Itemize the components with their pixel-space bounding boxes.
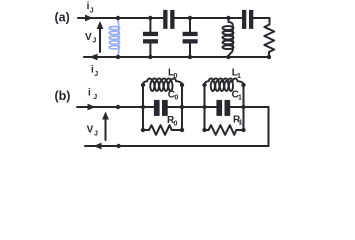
label i_J bottom (a) (91, 65, 98, 79)
svg-text:0: 0 (175, 95, 179, 102)
wire bottom return (b) (85, 145, 269, 147)
svg-text:J: J (94, 131, 98, 138)
capacitor C1 (205, 100, 244, 116)
arrowhead i_J (b) right (88, 104, 96, 111)
label R0 (167, 115, 178, 128)
node dots capacitor shunt 2 (188, 16, 192, 20)
node dots blue inductor (116, 16, 120, 20)
label C1 (232, 90, 242, 102)
resistor load (a) (264, 18, 274, 57)
block 1: right edge wire (243, 85, 245, 130)
wire bottom rail (a) (84, 56, 269, 58)
capacitor series 1 (a) (163, 10, 174, 29)
capacitor shunt 2 (a) (183, 18, 198, 57)
label V_J (b) (87, 125, 98, 138)
arrow V_J (a) up (97, 21, 104, 52)
wire right return (b) (268, 107, 270, 146)
label R1 (233, 115, 243, 127)
inductor L1 (205, 79, 244, 91)
block 0: right edge wire (181, 85, 183, 130)
svg-text:V: V (87, 125, 94, 136)
capacitor C0 (143, 100, 182, 116)
node dot input (b) (116, 105, 120, 109)
arrowhead i_J top (a) (85, 15, 93, 22)
capacitor series 2 (a) (242, 10, 253, 29)
svg-text:J: J (90, 8, 94, 15)
svg-text:J: J (92, 38, 96, 45)
label i_J (b) (88, 88, 97, 102)
node dots block 0 (141, 83, 184, 132)
node dots block 1 (202, 83, 245, 132)
node dot resistor bottom (267, 55, 271, 59)
inductor L0 (143, 79, 182, 91)
node dots capacitor shunt 1 (148, 16, 152, 20)
svg-text:i: i (88, 88, 91, 99)
svg-text:(b): (b) (55, 89, 71, 103)
wire middle rail (b) (77, 106, 269, 108)
node dot return (b) (116, 144, 120, 148)
svg-text:J: J (94, 71, 98, 78)
arrowhead return current (b) left (94, 143, 102, 150)
label i_J top (a) (87, 1, 94, 15)
node dots inductor shunt (a) (226, 16, 230, 20)
label L0 (168, 68, 178, 81)
svg-text:J: J (93, 94, 97, 101)
arrowhead i_J bottom (a) left (90, 54, 98, 61)
inductor shunt (a) black (223, 18, 234, 57)
wire top rail (a) with current arrow (78, 17, 270, 19)
svg-text:0: 0 (174, 73, 178, 80)
resistor R0 (143, 125, 182, 135)
svg-text:1: 1 (237, 73, 241, 80)
resistor R1 (205, 125, 244, 135)
svg-text:1: 1 (238, 95, 242, 102)
svg-text:0: 0 (174, 121, 178, 128)
block 0: left edge wire (142, 85, 144, 130)
capacitor shunt 1 (a) (143, 18, 158, 57)
arrow V_J (b) up (102, 112, 109, 141)
label V_J (a) (85, 32, 96, 45)
svg-text:V: V (85, 32, 92, 43)
svg-text:1: 1 (239, 120, 243, 127)
block 1: left edge wire (204, 85, 206, 130)
label C0 (168, 90, 179, 102)
inductor blue (Josephson element) (109, 18, 119, 58)
label L1 (232, 68, 241, 81)
svg-text:(a): (a) (55, 10, 70, 24)
